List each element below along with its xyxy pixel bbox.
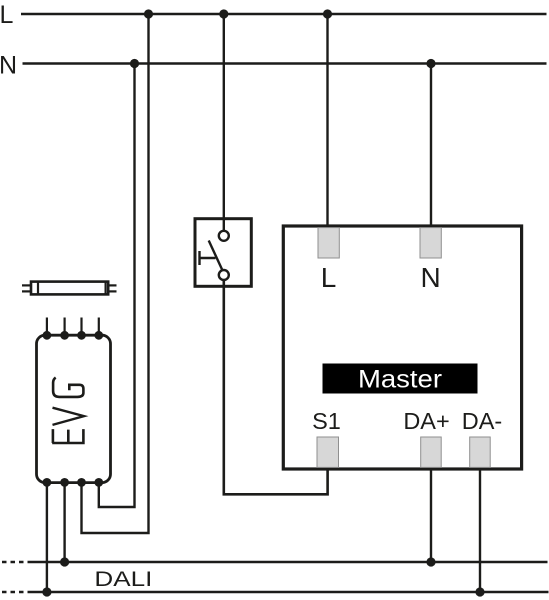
Master box U1 <box>283 226 521 469</box>
wire EVG pin1 to DALI second line <box>46 482 48 592</box>
svg-text:S1: S1 <box>312 408 341 434</box>
EVG top pin dot 2 <box>60 331 69 340</box>
node L label <box>0 1 14 29</box>
wire L supply line <box>21 13 547 15</box>
wire Master DA+ to DALI line 1 <box>430 468 432 562</box>
svg-text:DA+: DA+ <box>403 408 449 434</box>
lamp end cap left <box>37 282 39 295</box>
junction dot pin1/DALI2 <box>42 587 51 596</box>
junction dot L/switch <box>219 9 228 18</box>
EVG lamp wire 1 <box>46 318 48 336</box>
terminal L <box>318 228 339 258</box>
DALI bus line 2 <box>28 591 549 593</box>
EVG lamp wire 4 <box>98 318 100 336</box>
Master name bar <box>323 364 478 394</box>
lamp end cap right <box>104 282 106 295</box>
lamp pin bottom-left <box>22 290 31 292</box>
junction dot L/Master <box>323 9 332 18</box>
wire L to Master L terminal <box>326 14 328 228</box>
EVG top pin dot 4 <box>94 331 103 340</box>
EVG top pin dot 3 <box>77 331 86 340</box>
wire L to EVG (via pin3) <box>82 14 149 533</box>
svg-text:N: N <box>0 52 17 80</box>
DALI label <box>94 567 152 591</box>
switch pushbutton actuator T <box>200 251 216 265</box>
EVG bottom pin dot 1 <box>43 478 52 487</box>
svg-text:DALI: DALI <box>94 567 152 591</box>
terminal S1 label <box>312 408 341 434</box>
Master name text <box>358 366 442 394</box>
terminal DA- label <box>462 408 502 434</box>
terminal DA- <box>470 437 491 467</box>
terminal L label <box>321 262 337 293</box>
EVG bottom pin dot 4 <box>94 478 103 487</box>
DALI bus line 2 dashed end <box>2 591 28 593</box>
wire N supply line <box>23 62 547 64</box>
lamp pin bottom-right <box>108 290 116 292</box>
wire switch to Master S1 terminal <box>224 280 328 494</box>
lamp pin top-right <box>108 284 116 286</box>
EVG lamp wire 3 <box>80 318 82 336</box>
junction dot N/EVG <box>130 59 139 68</box>
switch S box <box>195 219 251 287</box>
switch lever blade <box>209 241 223 271</box>
svg-text:L: L <box>321 262 337 293</box>
svg-text:Master: Master <box>358 366 442 394</box>
node N label <box>0 52 17 80</box>
junction dot N/Master <box>426 59 435 68</box>
terminal N label <box>420 262 440 293</box>
switch bottom contact <box>219 270 229 280</box>
lamp pin top-left <box>22 284 31 286</box>
EVG bottom pin dot 2 <box>60 478 69 487</box>
EVG ballast box <box>37 335 111 482</box>
junction dot DA+/DALI1 <box>426 557 435 566</box>
EVG top pin dot 1 <box>43 331 52 340</box>
wire N to EVG (via pin4) <box>99 64 135 508</box>
wire L to switch <box>223 14 225 231</box>
terminal DA+ label <box>403 408 449 434</box>
EVG bottom pin dot 3 <box>77 478 86 487</box>
svg-text:L: L <box>0 1 14 29</box>
junction dot DA-/DALI2 <box>475 587 484 596</box>
wire N to Master N terminal <box>430 64 432 229</box>
wire EVG pin2 to DALI first line <box>63 482 65 562</box>
DALI bus line 1 <box>28 561 548 563</box>
junction dot pin2/DALI1 <box>60 557 69 566</box>
svg-text:N: N <box>420 262 440 293</box>
terminal DA+ <box>421 437 442 467</box>
DALI bus line 1 dashed end <box>2 561 28 563</box>
wire Master DA- to DALI line 2 <box>479 468 481 592</box>
terminal N <box>420 228 441 258</box>
svg-text:DA-: DA- <box>462 408 502 434</box>
fluorescent lamp tube <box>31 282 108 295</box>
junction dot L/EVG <box>144 9 153 18</box>
EVG lamp wire 2 <box>63 318 65 336</box>
switch top contact <box>219 231 229 241</box>
terminal S1 <box>317 437 339 467</box>
EVG label (rotated, hand-drawn) <box>52 378 84 443</box>
